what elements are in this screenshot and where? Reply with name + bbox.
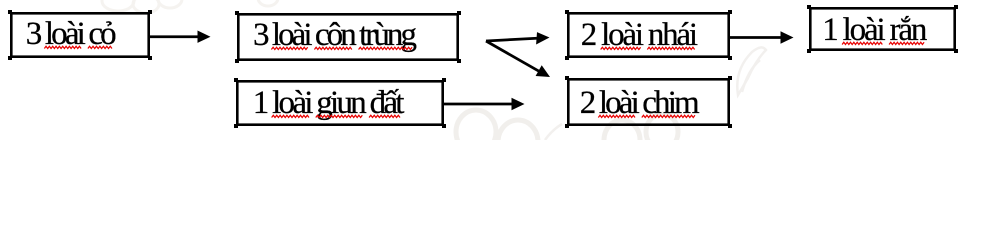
arrow A5 box5->box6: [444, 103, 513, 106]
watermark: [0, 0, 989, 140]
arrow A2 fork upper: [486, 38, 537, 41]
corner handles: [8, 5, 958, 128]
arrows & handles: [0, 0, 989, 140]
box B5: 1 loai giun dat: [236, 80, 444, 126]
box B1: 3 loai co: [10, 12, 150, 58]
box B2: 3 loai con trung: [237, 13, 459, 61]
arrow A4 box3->box4: [730, 36, 782, 39]
box B4: 1 loai ran: [809, 7, 956, 51]
box B6: 2 loai chim: [567, 78, 730, 126]
box borders: [11, 8, 954, 124]
arrow A1 box1->box2: [150, 35, 199, 38]
squiggles placeholder: [0, 0, 989, 140]
box B3: 2 loai nhai: [567, 12, 730, 58]
arrow A3 fork lower diagonal: [486, 41, 540, 72]
